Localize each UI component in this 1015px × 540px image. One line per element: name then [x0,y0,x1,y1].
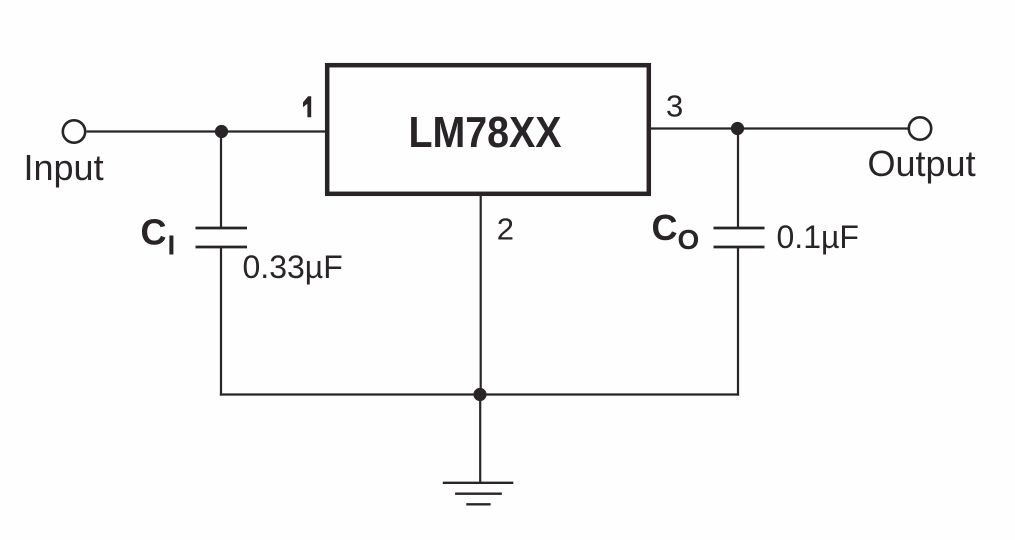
node junction dot output [731,122,744,135]
svg-text:Input: Input [24,147,104,188]
wire node output down to capacitor CO [737,129,739,228]
wire bottom rail [220,393,739,395]
input terminal circle [63,120,85,142]
svg-text:CI: CI [141,212,176,261]
wire capacitor CO down to bottom rail [737,247,739,396]
node junction dot ground [473,388,486,401]
output terminal circle [909,117,931,139]
svg-text:0.33µF: 0.33µF [243,249,343,285]
regulator IC U1 LM78XX box [327,65,649,194]
capacitor CO plates [714,228,765,247]
wire input terminal to pin 1 [87,130,325,132]
svg-text:CO: CO [652,207,700,255]
capacitor CI plates [196,228,248,247]
svg-text:LM78XX: LM78XX [409,109,562,157]
wire pin 3 to output terminal [651,127,908,129]
wire capacitor CI down to bottom rail [220,247,222,396]
wire pin 2 from box to bottom rail [480,196,482,395]
node junction dot input [215,125,228,138]
svg-text:0.1µF: 0.1µF [777,219,859,255]
svg-text:2: 2 [497,212,514,247]
wire node input down to capacitor CI [220,132,222,228]
svg-text:3: 3 [666,88,683,123]
pin number 1 [303,96,311,117]
wire ground stem [479,395,481,483]
svg-text:Output: Output [868,143,976,184]
ground symbol [443,483,514,505]
